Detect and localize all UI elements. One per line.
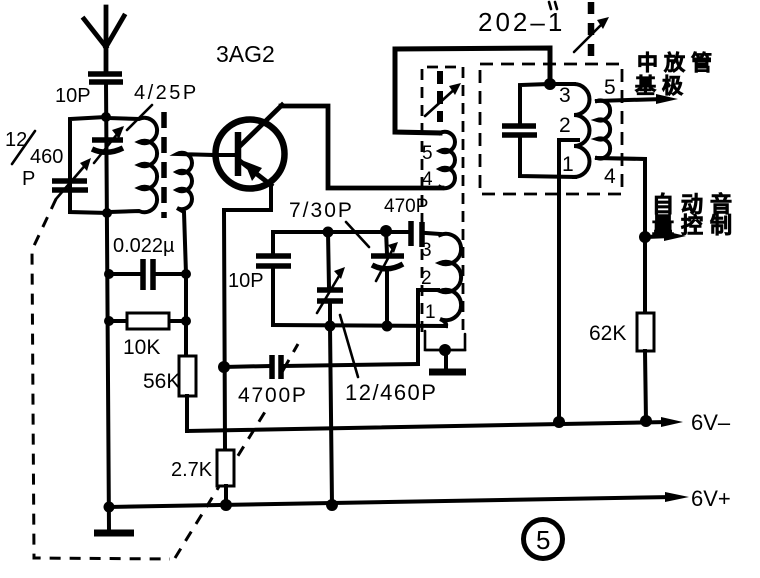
capacitor (202-1 internal) <box>502 84 575 177</box>
dashed shield box osc transformer <box>422 67 465 350</box>
svg-text:62K: 62K <box>589 322 626 345</box>
resistor 62K <box>589 313 654 421</box>
node 202-1 top <box>544 78 556 90</box>
coil 202-1 primary 3-2-1 <box>550 84 590 177</box>
svg-text:7/30P: 7/30P <box>289 199 354 222</box>
resistor 10K <box>109 313 186 359</box>
node emitter 4700P junction <box>218 361 230 373</box>
svg-text:4: 4 <box>422 169 433 190</box>
svg-text:1: 1 <box>425 302 436 323</box>
node tank bottom mid <box>325 321 336 332</box>
svg-text:56K: 56K <box>143 370 180 393</box>
node 10K right <box>181 316 191 326</box>
svg-text:P: P <box>22 168 35 190</box>
transistor Q1 3AG2 <box>213 41 285 189</box>
node AGC <box>639 231 651 243</box>
svg-text:10P: 10P <box>228 270 264 292</box>
arrow 6V- <box>661 417 683 427</box>
capacitor 12/460P (antenna tuning) <box>5 129 91 199</box>
node tank top mid <box>323 227 334 238</box>
wire 6V+ rail <box>109 497 672 507</box>
svg-text:0.022µ: 0.022µ <box>113 235 175 257</box>
oscillator tank: top wire <box>273 230 390 234</box>
coil osc primary 5-4 <box>440 132 455 188</box>
svg-text:3: 3 <box>421 240 432 261</box>
svg-text:10K: 10K <box>123 336 160 359</box>
label 自动音量控制 <box>652 192 739 238</box>
svg-text:中放管: 中放管 <box>637 51 718 75</box>
dashed gang linkage <box>32 199 298 559</box>
svg-text:2.7K: 2.7K <box>171 459 213 481</box>
resistor 56K <box>143 356 196 431</box>
svg-text:460: 460 <box>30 146 63 168</box>
trimmer mark (202-1) <box>574 2 609 60</box>
coil L2 antenna secondary <box>177 153 213 274</box>
wire osc coil top to 202-1 <box>395 48 550 133</box>
node antenna tank top <box>101 112 111 122</box>
node rail 646 <box>640 415 652 427</box>
svg-text:202–1: 202–1 <box>478 7 565 37</box>
label 中放管基极 <box>635 51 718 98</box>
shield ground (osc transformer) <box>426 344 466 372</box>
oscillator tank: bottom wire <box>273 325 446 326</box>
wire antenna main vertical <box>106 82 109 530</box>
resistor 2.7K <box>171 450 234 505</box>
wire tank loop left <box>70 117 107 213</box>
wire 6V- rail <box>187 422 666 431</box>
capacitor 12/460P (osc tuning) <box>317 232 437 405</box>
svg-text:4700P: 4700P <box>238 384 308 407</box>
node 6V+ osc <box>326 499 338 511</box>
ground (main) <box>94 530 134 537</box>
svg-text:6V+: 6V+ <box>691 486 731 511</box>
capacitor 470P <box>384 196 440 247</box>
coil 202-1 secondary 5-4 <box>597 76 616 188</box>
node 6V+ 2.7K <box>220 499 232 511</box>
node main line 0.022 junction <box>104 269 114 279</box>
svg-text:3AG2: 3AG2 <box>216 41 275 67</box>
wire emitter <box>224 184 271 450</box>
antenna <box>84 7 124 72</box>
capacitor 10P (osc) <box>228 232 291 325</box>
svg-text:10P: 10P <box>55 85 91 107</box>
svg-text:3: 3 <box>559 84 571 107</box>
label 202-1 <box>478 2 565 37</box>
node 10K left <box>104 316 114 326</box>
svg-text:12/460P: 12/460P <box>345 380 437 405</box>
capacitor 4/25P (trimmer) <box>92 82 199 163</box>
node rail 559 <box>553 416 565 428</box>
svg-text:4/25P: 4/25P <box>134 82 199 104</box>
svg-text:2: 2 <box>559 114 571 137</box>
svg-text:2: 2 <box>421 268 432 289</box>
node tank top right <box>380 225 392 237</box>
node antenna tank bottom <box>102 208 112 218</box>
svg-text:量控制: 量控制 <box>652 213 739 238</box>
wire collector <box>281 106 442 188</box>
wire base bias line <box>184 274 188 356</box>
trimmer mark (osc transformer) <box>425 71 461 122</box>
wire osc tap 2 feedback <box>418 290 438 364</box>
capacitor 7/30P (osc trimmer) <box>289 199 404 326</box>
capacitor 0.022u <box>109 235 186 290</box>
svg-text:5: 5 <box>604 76 616 99</box>
svg-text:5: 5 <box>422 143 433 164</box>
wire osc mid vertical to 6V+ <box>330 326 332 505</box>
svg-text:5: 5 <box>536 525 550 555</box>
wire 202-1 tap 2 down to 6V- <box>559 140 578 422</box>
svg-text:基极: 基极 <box>635 75 689 98</box>
node 6V+ left <box>104 502 115 513</box>
coil L1 antenna primary <box>107 118 157 212</box>
core (dashed) of antenna transformer <box>161 112 167 218</box>
node tank bottom right <box>382 321 393 332</box>
svg-text:6V–: 6V– <box>691 410 731 435</box>
arrow AGC output <box>645 231 686 241</box>
capacitor 4700P <box>224 355 418 407</box>
coil osc secondary 3-2-1 <box>440 234 461 326</box>
capacitor 10P (antenna coupling) <box>55 74 123 107</box>
arrow 6V+ <box>665 492 689 502</box>
node base line 0.022 junction <box>181 269 191 279</box>
circled 5 <box>524 520 563 559</box>
wire pin4 to AGC node <box>597 158 645 313</box>
svg-text:1: 1 <box>562 153 574 176</box>
svg-text:4: 4 <box>604 165 616 188</box>
wire pin5 output to IF base <box>597 94 678 104</box>
dashed box IF transformer 202-1 <box>480 64 622 194</box>
